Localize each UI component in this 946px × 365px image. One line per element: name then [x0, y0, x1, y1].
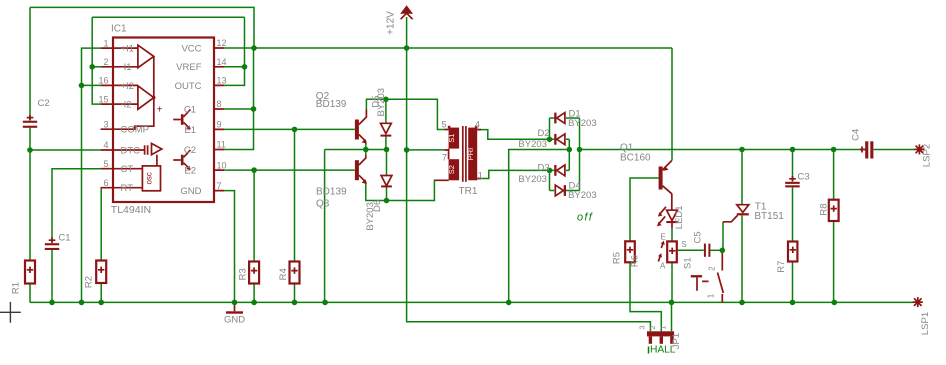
svg-text:C3: C3 [798, 172, 810, 183]
node DTC/C2/R1 [27, 147, 33, 153]
node R2/GND rail [98, 300, 104, 306]
svg-text:-I1: -I1 [121, 62, 132, 73]
wire: T1 cathode to ground rail [741, 215, 743, 302]
svg-text:D2: D2 [538, 128, 550, 139]
IC1 internal line buffer to osc [156, 155, 158, 166]
transistor Q3 BD139 [355, 155, 367, 184]
svg-text:RT: RT [121, 183, 134, 194]
svg-text:BD139: BD139 [316, 187, 347, 198]
solder pad LSP1 [913, 297, 923, 307]
IC1 left pin stubs 1,2,16,15,3,4,5,6 [101, 48, 113, 188]
svg-text:5: 5 [442, 119, 447, 129]
wire: R8 bottom to ground rail [833, 221, 835, 302]
wire: Q2 collector rail to TR1 pin5 [366, 99, 444, 129]
wire: D2-D3 inner right vertical [568, 139, 570, 170]
svg-text:TR1: TR1 [459, 186, 478, 197]
HALL label tick [648, 347, 650, 354]
svg-text:OUTC: OUTC [175, 81, 202, 92]
svg-text:-I2: -I2 [121, 100, 132, 111]
svg-text:C1: C1 [184, 104, 196, 115]
diode D5 BY203 [381, 123, 392, 136]
svg-text:9: 9 [217, 120, 222, 130]
svg-text:1: 1 [707, 293, 716, 298]
svg-text:S: S [681, 240, 686, 249]
capacitor C2 [23, 115, 37, 128]
svg-text:2: 2 [708, 266, 717, 271]
node +12V supply [404, 45, 410, 51]
trimmer potentiometer (E/A/S) [658, 241, 677, 263]
svg-text:R2: R2 [84, 276, 95, 288]
wire: +12V rail VCC to Q1 [224, 47, 672, 49]
node trimmer-A/JP1-3/GND [669, 300, 675, 306]
wire: rail2 drop to pin2 [91, 17, 93, 67]
wire: rail2 drop to VREF pin [244, 17, 246, 67]
svg-text:2: 2 [648, 325, 657, 329]
capacitor C1 [45, 237, 59, 250]
svg-text:R3: R3 [237, 268, 248, 280]
svg-text:COMP: COMP [121, 125, 150, 136]
svg-text:CT: CT [121, 164, 134, 175]
IC1 right pin names [175, 43, 202, 197]
transformer TR1 winding S1 [449, 128, 460, 149]
node: comparator tips junction [152, 96, 155, 99]
wire: R3 bottom to ground rail [253, 284, 255, 303]
wire: DTC to C2/R1 node [30, 149, 101, 151]
transistor Q1 BC160 [659, 161, 672, 194]
wire: Q1 emitter feed from +12V [671, 48, 673, 161]
sheet origin cross [0, 302, 21, 323]
wire: Q3 collector to center rail [365, 150, 367, 155]
IC1 right pin stubs 12,14,13,8,9,11,10,7 [214, 48, 224, 191]
svg-text:R5: R5 [612, 252, 623, 264]
node +12V to TR1 pin7 [404, 147, 410, 153]
svg-text:7: 7 [442, 153, 447, 163]
IC1 internal DTC buffer triangle [152, 143, 162, 154]
resistor R7 [788, 242, 797, 262]
wire: D3-D4 left vertical [549, 170, 551, 190]
svg-text:BC160: BC160 [620, 152, 651, 163]
svg-text:1: 1 [478, 170, 483, 180]
wire: OUTC to VREF node [224, 67, 245, 86]
node bridge inner [567, 147, 573, 153]
svg-text:16: 16 [98, 76, 108, 86]
wire: bridge inner node to ground rail [509, 150, 570, 303]
node C1 collector to +12V [251, 106, 257, 112]
diode D4 BY203 [555, 185, 566, 196]
wire: C2 column top [29, 7, 31, 120]
IC U1 TL494IN box [113, 38, 214, 203]
wire: Q3 emitter rail to TR1 S2 bottom [366, 180, 449, 200]
wire: VREF tie rail [92, 16, 244, 18]
IC1 left pin names [121, 44, 150, 195]
node T1 cathode/GND [739, 300, 745, 306]
wire: C2 bottom to R1 top [29, 128, 31, 261]
wire: pin16 stub [82, 84, 101, 86]
node VREF/OUTC [242, 64, 248, 70]
svg-text:LED1: LED1 [674, 205, 685, 229]
svg-text:BY203: BY203 [518, 174, 547, 185]
svg-text:7: 7 [217, 181, 222, 191]
svg-text:+I1: +I1 [121, 44, 134, 55]
node center-rail/GND [322, 300, 328, 306]
connector JP1 [647, 331, 674, 344]
svg-text:C2: C2 [184, 145, 196, 156]
svg-text:R8: R8 [818, 203, 829, 215]
svg-text:14: 14 [217, 57, 227, 67]
node +I1 net/GND rail [79, 300, 85, 306]
svg-text:off: off [577, 212, 593, 224]
wire: pin2 to rail2 [92, 66, 100, 68]
IC1 internal osc box [142, 166, 160, 191]
LED LED1 [657, 207, 678, 227]
IC1 internal CT RT lines [113, 169, 142, 188]
transistor Q2 BD139 [355, 110, 367, 144]
node E1/R4 [292, 127, 298, 133]
svg-text:HALL: HALL [650, 345, 676, 356]
wire: R2 bottom to ground rail [100, 283, 102, 302]
node E2/R3 [251, 167, 257, 173]
resistor R3 [249, 262, 259, 284]
resistor R5 / R6 (stacked) [625, 241, 635, 262]
transformer TR1 core [463, 126, 466, 182]
svg-text:BT151: BT151 [754, 211, 784, 222]
switch S1 [691, 252, 724, 302]
diode D3 BY203 [554, 165, 565, 176]
wire: center rail drop to ground rail [324, 150, 326, 303]
transformer TR1 winding S2 [449, 159, 460, 180]
wire: center rail [325, 149, 387, 151]
node TR1-1/D3/D4 [547, 168, 553, 174]
wire: R5/R6 bottom to JP1 pin2 [630, 262, 661, 331]
wire: R3 branch from E2 [253, 170, 255, 261]
svg-text:LSP1: LSP1 [920, 312, 931, 335]
IC1 right pin numbers [217, 38, 227, 191]
svg-text:R1: R1 [11, 282, 22, 294]
node C5/S1/T1-gate [720, 248, 726, 254]
node R4/GND rail [292, 300, 298, 306]
thyristor T1 BT151 [723, 205, 749, 222]
svg-text:15: 15 [98, 94, 108, 104]
svg-text:C2: C2 [38, 98, 50, 109]
svg-text:8: 8 [217, 99, 222, 109]
wire: D1-D2 left vertical [549, 118, 551, 139]
svg-text:S1: S1 [447, 134, 456, 143]
node TR1-4/D1/D2 [547, 137, 553, 143]
svg-text:TL494IN: TL494IN [111, 204, 151, 216]
resistor R2 [96, 261, 106, 284]
svg-text:GND: GND [180, 186, 201, 197]
wire: C5 to gate node [710, 249, 722, 251]
resistor R1 [25, 261, 35, 284]
svg-text:D6: D6 [372, 200, 383, 212]
svg-text:DTC: DTC [121, 145, 141, 156]
svg-text:S1: S1 [683, 257, 694, 269]
svg-text:VREF: VREF [176, 62, 202, 73]
svg-text:13: 13 [217, 76, 227, 86]
svg-text:A: A [660, 262, 666, 271]
svg-text:VCC: VCC [181, 43, 201, 54]
svg-text:D3: D3 [538, 162, 550, 173]
wire: R7 bottom to ground rail [792, 262, 794, 303]
wire: Q2 emitter to center rail [365, 143, 367, 150]
node bridge output [577, 147, 583, 153]
+12V supply arrow [400, 5, 413, 14]
svg-text:R6: R6 [630, 255, 641, 267]
svg-text:IC1: IC1 [111, 24, 127, 35]
node R8 top [831, 147, 837, 153]
IC1 internal comparator 1 [138, 45, 154, 68]
svg-text:C1: C1 [58, 233, 70, 244]
wire: TR1 pin1 to D3/D4 node [478, 170, 550, 178]
svg-text:BY203: BY203 [568, 118, 597, 129]
svg-text:C4: C4 [851, 129, 862, 141]
node -I1/VREF [89, 64, 95, 70]
IC1 internal input lines [113, 48, 138, 104]
wire: LED1 to trimmer E [671, 229, 673, 242]
wire: D5 top lead [385, 99, 387, 123]
node Q2e/Q3c center [363, 147, 369, 153]
wire: D6 bottom lead [386, 187, 388, 201]
node D6/Q3e rail [384, 198, 390, 204]
svg-text:5: 5 [103, 159, 108, 169]
svg-text:LSP2: LSP2 [922, 144, 933, 167]
svg-text:+: + [157, 104, 163, 115]
wire: T1 gate drop to node [722, 222, 724, 251]
wire: +12V supply drop to hall feed [407, 17, 651, 331]
svg-text:E: E [661, 233, 666, 242]
ground symbol GND [226, 302, 243, 313]
wire: E2 to Q3 base [224, 169, 355, 171]
svg-text:C5: C5 [692, 231, 703, 243]
wire: D5 bottom lead to center rail [385, 136, 387, 149]
svg-text:1: 1 [659, 325, 668, 329]
svg-text:S2: S2 [447, 165, 456, 174]
wire: Q1 base to R5/R6 [630, 178, 659, 241]
diode D6 BY203 [381, 176, 392, 188]
node D5/D6 center [384, 147, 390, 153]
wire: pin15 link to pin2 node [92, 67, 100, 104]
svg-text:2: 2 [103, 57, 108, 67]
svg-text:PRI: PRI [466, 148, 475, 161]
node bridge-inner/GND [506, 300, 512, 306]
node R8/GND rail [832, 300, 838, 306]
wire: trimmer S to C5 [677, 249, 704, 251]
wire: LED1 cathode lead [671, 223, 673, 229]
solder pad LSP2 [914, 144, 924, 154]
node VCC/+12V at IC [251, 45, 257, 51]
wire: D2 leads [550, 138, 570, 140]
wire: R4 branch from E1 [294, 129, 296, 261]
wire: TR1 pin7 center tap feed [407, 149, 445, 151]
wire: Q1 collector lead to LED1 [671, 194, 673, 211]
IC1 internal DTC line and bars [113, 149, 144, 151]
IC1 internal comparator 2 [138, 86, 154, 110]
capacitor C4 [860, 141, 873, 158]
wire: output rail to C4 [580, 149, 866, 151]
wire: pin7 GND down to ground rail [224, 191, 235, 303]
capacitor C3 [785, 176, 800, 187]
wire: RT to R2 [100, 188, 103, 261]
wire: E1 to Q2 base [224, 128, 355, 130]
wire: C3 top lead [792, 150, 794, 182]
node T1 anode [739, 147, 745, 153]
transformer TR1 winding PRI [468, 128, 477, 181]
node C3 top [790, 147, 796, 153]
wire: D4 leads [550, 190, 580, 192]
svg-text:E1: E1 [184, 125, 196, 136]
wire: pin1/+I1 down to ground rail [82, 48, 101, 302]
svg-text:BY203: BY203 [376, 88, 387, 117]
node GND pin7 rail [232, 300, 238, 306]
wire: pin8 stub to vertical [224, 108, 254, 110]
TR1 pin leads [435, 130, 481, 181]
svg-text:3: 3 [637, 325, 646, 329]
wire: top rail from C2 column to VCC drop [30, 7, 254, 48]
svg-text:3: 3 [103, 119, 108, 129]
svg-text:12: 12 [217, 38, 227, 48]
wire: D6 top lead [386, 150, 388, 176]
wire: trimmer A to ground rail [671, 262, 673, 302]
svg-text:R4: R4 [278, 268, 289, 280]
wire: JP1 pin3 to ground rail [671, 302, 673, 331]
svg-text:+I2: +I2 [121, 81, 134, 92]
node D5 anode rail [383, 97, 389, 103]
svg-text:4: 4 [475, 120, 480, 130]
wire: pin8/pin11 tie to +12V [224, 48, 254, 150]
wire: C1 bottom to ground rail [51, 250, 53, 302]
wire: TR1 pin4 to D1/D2 node [478, 130, 550, 140]
svg-text:10: 10 [217, 160, 227, 170]
TR1 pin numbers [442, 119, 483, 180]
node C1/GND rail [49, 300, 55, 306]
IC1 internal output transistor B [181, 155, 184, 166]
capacitor C5 [704, 244, 711, 257]
svg-text:BD139: BD139 [316, 99, 347, 110]
svg-text:1: 1 [103, 38, 108, 48]
node R7/GND rail [790, 300, 796, 306]
node R3/GND rail [251, 300, 257, 306]
svg-text:R7: R7 [776, 261, 787, 273]
TR1 pin origin dots [448, 126, 451, 129]
node +I1/+I2 [79, 83, 85, 89]
svg-text:4: 4 [103, 140, 108, 150]
wire: CT to C1 [52, 169, 101, 244]
wire: D1-D4 outer right vertical [579, 118, 581, 191]
svg-text:osc: osc [145, 172, 154, 184]
wire: R4 bottom to ground rail [294, 284, 296, 303]
wire: C4 to LSP2 [874, 149, 915, 151]
wire: R8 top from output rail [833, 150, 835, 200]
wire: VREF stub [224, 66, 245, 68]
wire: C3 to R7 [792, 187, 794, 241]
wire: ground rail [30, 301, 914, 303]
wire: D3 leads [550, 169, 570, 171]
resistor R4 [290, 262, 300, 284]
wire: T1 anode from output rail [741, 150, 743, 205]
svg-text:BY203: BY203 [518, 139, 547, 150]
svg-text:11: 11 [217, 140, 226, 150]
svg-text:E2: E2 [184, 166, 196, 177]
svg-text:Q3: Q3 [316, 199, 330, 210]
diode D1 BY203 [554, 113, 565, 124]
svg-text:+12V: +12V [386, 11, 397, 35]
svg-text:GND: GND [224, 315, 245, 326]
diode D2 BY203 [554, 134, 565, 145]
svg-text:BY203: BY203 [568, 190, 597, 201]
wire: R1 bottom to ground rail [29, 284, 31, 303]
IC1 internal output transistor A [181, 114, 184, 125]
wire: D1 leads [550, 117, 580, 119]
svg-text:6: 6 [103, 178, 108, 188]
resistor R8 [829, 200, 839, 221]
IC1 internal comp output line to COMP pin [113, 56, 154, 129]
IC1 left pin numbers [98, 38, 108, 188]
